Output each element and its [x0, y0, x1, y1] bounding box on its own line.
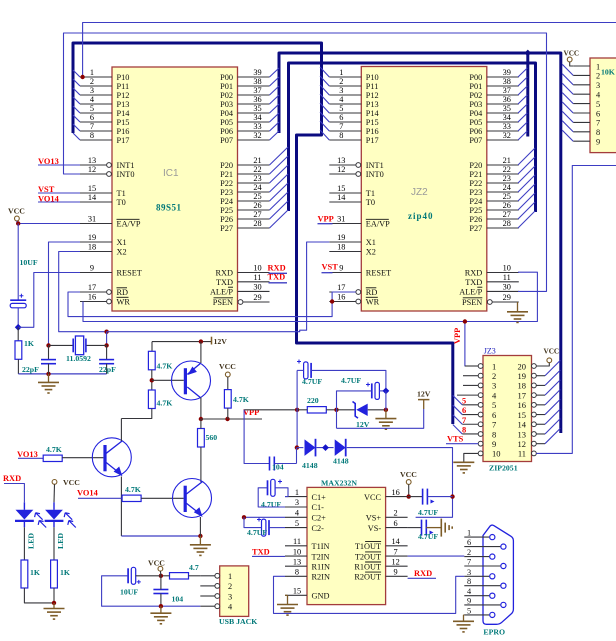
svg-text:EA/VP: EA/VP: [366, 220, 390, 229]
svg-text:P23: P23: [469, 188, 482, 197]
svg-text:INT0: INT0: [117, 170, 135, 179]
svg-text:31: 31: [88, 215, 96, 224]
svg-text:7: 7: [90, 122, 94, 131]
pin 27 (P26) right: [238, 218, 270, 220]
svg-text:VO13: VO13: [17, 450, 38, 459]
DB9 pin 5: [464, 614, 489, 616]
svg-text:26: 26: [253, 201, 261, 210]
JZ3 pin 13: [532, 432, 537, 437]
svg-text:5: 5: [339, 104, 343, 113]
RP1 pin 2: [573, 74, 590, 76]
svg-text:P12: P12: [117, 91, 130, 100]
RP1 pin 4: [573, 93, 590, 95]
JZ2 P0x bus entries: [518, 68, 527, 77]
svg-text:560: 560: [206, 433, 218, 442]
svg-text:6: 6: [596, 109, 600, 118]
svg-text:31: 31: [337, 215, 345, 224]
svg-text:P22: P22: [220, 179, 233, 188]
svg-text:2: 2: [492, 371, 496, 381]
svg-text:24: 24: [503, 183, 512, 192]
JZ3 pin 14: [532, 422, 537, 427]
svg-text:13: 13: [518, 429, 527, 439]
svg-text:14: 14: [88, 193, 97, 202]
svg-text:T0: T0: [366, 198, 375, 207]
svg-text:RESET: RESET: [117, 269, 142, 278]
wire VPP node: [201, 418, 262, 420]
svg-text:27: 27: [503, 210, 511, 219]
svg-text:VCC: VCC: [148, 559, 165, 568]
svg-text:11: 11: [293, 537, 301, 546]
svg-text:15: 15: [337, 184, 345, 193]
svg-text:23: 23: [253, 174, 261, 183]
svg-text:22pF: 22pF: [99, 365, 116, 374]
svg-text:16: 16: [391, 488, 399, 497]
svg-text:10UF: 10UF: [20, 258, 38, 267]
pin 16 (WR) left: [356, 299, 361, 304]
svg-text:34: 34: [503, 113, 512, 122]
svg-text:3: 3: [295, 498, 299, 507]
JZ3 bus entry pin 13: [536, 433, 545, 435]
DB9 pin 2: [464, 556, 489, 558]
svg-text:4148: 4148: [302, 461, 318, 470]
connector EPRO DB9 outline: [483, 525, 513, 624]
diode D3 4148: [297, 447, 304, 449]
svg-text:4.7K: 4.7K: [157, 362, 173, 371]
svg-text:X1: X1: [117, 238, 127, 247]
pin 34 (P05) right: [238, 121, 270, 123]
svg-text:1K: 1K: [60, 568, 70, 577]
svg-text:P13: P13: [366, 100, 379, 109]
wire Q2 emitter: [199, 517, 201, 536]
svg-text:10K: 10K: [601, 68, 615, 77]
capacitor 4.7UF c1: [304, 362, 308, 379]
pin 27 (P26) right: [487, 218, 519, 220]
pin 26 (P25) right: [487, 209, 519, 211]
pin 10 (RXD) right: [238, 272, 270, 274]
bus B1 horizontal y=43 (P1x bus): [73, 43, 453, 424]
svg-text:27: 27: [253, 210, 261, 219]
svg-text:TXD: TXD: [465, 278, 482, 287]
svg-text:10: 10: [503, 264, 511, 273]
svg-text:5: 5: [596, 100, 600, 109]
ground G9 db9 pin5: [463, 614, 466, 616]
usb left loop wire: [102, 576, 201, 606]
LED D2: [53, 502, 55, 510]
LED D1: [23, 502, 25, 510]
connector JZ3 ZIP2051 body: [483, 356, 532, 462]
pin 12 (INT0) left: [356, 172, 361, 177]
pin 29 (PSEN) right: [238, 300, 243, 305]
pin 13 (R1IN) left: [285, 565, 307, 567]
svg-text:T2IN: T2IN: [312, 552, 330, 561]
svg-text:4.7K: 4.7K: [46, 445, 62, 454]
svg-text:T1: T1: [366, 189, 375, 198]
pin 26 (P25) right: [238, 209, 270, 211]
svg-text:VTS: VTS: [447, 435, 464, 444]
svg-text:18: 18: [88, 243, 96, 252]
capacitor 4.7UF c6 VS-: [408, 527, 422, 529]
wire X1 to crystal: [49, 242, 81, 345]
svg-text:8: 8: [492, 429, 496, 439]
svg-text:10UF: 10UF: [120, 588, 138, 597]
svg-text:16: 16: [518, 400, 527, 410]
pin 39 (P00) right: [238, 76, 270, 78]
svg-text:3: 3: [467, 568, 471, 577]
svg-text:P24: P24: [469, 197, 483, 206]
svg-text:4148: 4148: [333, 457, 349, 466]
ground G7: [53, 603, 55, 609]
svg-text:P06: P06: [220, 127, 233, 136]
pin 4 (P13) left: [329, 103, 361, 105]
wire Q3 emitter to 12V: [200, 342, 202, 363]
pin 5 (P14) left: [329, 112, 361, 114]
svg-text:6: 6: [492, 410, 496, 420]
svg-text:12: 12: [518, 439, 527, 449]
USB pin 1: [215, 573, 220, 578]
svg-text:EPRO: EPRO: [483, 628, 505, 637]
capacitor 10UF usb: [127, 568, 129, 583]
svg-text:P17: P17: [366, 136, 379, 145]
pin 10 (RXD) right: [487, 272, 519, 274]
pin 31 (EA/VP) left: [329, 223, 361, 225]
JZ3 pin 15: [532, 412, 537, 417]
svg-text:1: 1: [339, 68, 343, 77]
svg-text:17: 17: [337, 283, 345, 292]
IC1 P1x bus entries: [73, 70, 80, 77]
svg-text:P03: P03: [469, 100, 482, 109]
pin 12 (INT0) left: [107, 172, 112, 177]
svg-text:VCC: VCC: [63, 478, 80, 487]
svg-text:14: 14: [337, 193, 346, 202]
JZ3 pin 20: [532, 364, 537, 369]
svg-text:8: 8: [467, 577, 471, 586]
svg-text:9: 9: [596, 138, 600, 147]
power VCC JZ3: [547, 358, 552, 363]
svg-text:4.7UF: 4.7UF: [418, 532, 438, 541]
svg-text:4.7K: 4.7K: [233, 395, 249, 404]
svg-text:RXD: RXD: [3, 474, 21, 483]
pin 2 (VS+) right: [386, 516, 408, 518]
svg-text:3: 3: [339, 86, 343, 95]
DB9 pin 4: [464, 595, 489, 597]
svg-text:38: 38: [503, 77, 511, 86]
power VCC usb: [158, 566, 163, 571]
svg-text:LED: LED: [27, 533, 36, 549]
pin 32 (P07) right: [487, 139, 519, 141]
svg-text:P16: P16: [366, 127, 379, 136]
svg-text:P05: P05: [220, 118, 233, 127]
pin 7 (P16) left: [329, 130, 361, 132]
svg-text:13: 13: [293, 557, 301, 566]
svg-text:R1OUT: R1OUT: [354, 562, 381, 571]
power VCC left: [15, 216, 20, 221]
power 12V bar: [211, 337, 213, 345]
pin 22 (P21) right: [238, 173, 270, 175]
svg-text:T2OUT: T2OUT: [355, 552, 381, 561]
resistor R_a 4.7K: [148, 351, 155, 370]
svg-text:ZIP2051: ZIP2051: [489, 464, 518, 473]
JZ3 pin 9: [478, 441, 483, 446]
JZ3 bus entry pin 5: [453, 395, 463, 405]
svg-text:5: 5: [462, 396, 466, 405]
svg-text:USB JACK: USB JACK: [219, 617, 257, 626]
svg-text:P01: P01: [220, 82, 233, 91]
IC MAX232N body: [307, 487, 386, 604]
RP1 pin 9: [573, 140, 590, 142]
svg-text:9: 9: [467, 596, 471, 605]
svg-text:12V: 12V: [214, 337, 228, 346]
svg-text:C2-: C2-: [312, 524, 325, 533]
wire RD net IC1-JZ2: [68, 292, 356, 317]
wire Q1 collector: [120, 419, 122, 442]
wire cap to diamond node: [17, 308, 19, 328]
IC1 P2x bus entries: [270, 147, 289, 165]
svg-text:JZ3: JZ3: [484, 347, 496, 356]
ground G4: [453, 461, 474, 463]
wire JZ2 X1 to crystal: [107, 242, 330, 332]
wire 12V to zener rail: [337, 409, 424, 428]
svg-text:3: 3: [228, 592, 232, 601]
DB9 pin 8: [464, 585, 500, 587]
connector USB JACK body: [220, 566, 249, 617]
svg-text:P07: P07: [469, 136, 482, 145]
svg-text:X1: X1: [366, 238, 376, 247]
pin 22 (P21) right: [487, 173, 519, 175]
svg-text:T0: T0: [117, 198, 126, 207]
svg-text:1: 1: [467, 529, 471, 538]
pin 1 (P10) left: [80, 76, 112, 78]
svg-text:P21: P21: [220, 170, 233, 179]
svg-text:WR: WR: [117, 298, 131, 307]
svg-text:5: 5: [467, 606, 471, 615]
RP1 pin 3: [573, 84, 590, 86]
svg-text:7: 7: [467, 558, 471, 567]
svg-text:X2: X2: [117, 248, 127, 257]
pin 17 (RD) left: [356, 290, 361, 295]
svg-text:22: 22: [253, 165, 261, 174]
svg-text:C1+: C1+: [312, 493, 327, 502]
pin 7 (T2OUT) right: [386, 555, 408, 557]
pin 4 (P13) left: [80, 103, 112, 105]
wire emitters to ground: [121, 535, 200, 537]
svg-text:MAX232N: MAX232N: [321, 479, 357, 488]
svg-text:19: 19: [88, 233, 96, 242]
JZ3 pin 10: [478, 451, 483, 456]
svg-text:WR: WR: [366, 298, 380, 307]
pin 13 (INT1) left: [356, 163, 361, 168]
pin 16 (VCC) right: [386, 496, 408, 498]
DB9 pin 7: [464, 565, 500, 567]
svg-text:7: 7: [462, 416, 466, 425]
svg-text:P04: P04: [469, 109, 483, 118]
svg-text:11: 11: [518, 449, 526, 459]
svg-text:VPP: VPP: [453, 328, 462, 344]
svg-text:10: 10: [492, 449, 501, 459]
svg-text:10: 10: [293, 547, 301, 556]
svg-text:6: 6: [394, 519, 398, 528]
capacitor 4.7UF c3: [267, 480, 269, 495]
pin 28 (P27) right: [487, 227, 519, 229]
pin 7 (P16) left: [80, 130, 112, 132]
JZ3 bus entry pin 14: [536, 423, 545, 425]
svg-text:R1IN: R1IN: [312, 562, 330, 571]
svg-text:4.7UF: 4.7UF: [247, 528, 267, 537]
svg-text:GND: GND: [312, 592, 330, 601]
power VCC at RP1 pin1: [567, 57, 572, 62]
wire R2IN to DB9 pin3: [274, 576, 465, 613]
svg-text:37: 37: [503, 86, 511, 95]
svg-text:5: 5: [492, 400, 496, 410]
svg-text:P00: P00: [220, 73, 233, 82]
svg-text:P27: P27: [469, 224, 482, 233]
JZ3 pin 6: [478, 412, 483, 417]
wire rail to Ra: [151, 342, 153, 352]
pin 9 (RESET) left: [329, 272, 361, 274]
svg-text:24: 24: [253, 183, 262, 192]
zener diode 12V: [337, 409, 357, 411]
svg-text:1: 1: [90, 68, 94, 77]
JZ3 bus entry pin 8: [453, 424, 463, 434]
svg-text:P27: P27: [220, 224, 233, 233]
DB9 pin 9: [464, 604, 500, 606]
svg-text:6: 6: [467, 538, 471, 547]
svg-text:4.7K: 4.7K: [157, 399, 173, 408]
svg-text:9: 9: [339, 264, 343, 273]
JZ2 P1x bus entries: [320, 67, 329, 77]
JZ3 bus entry pin 19: [536, 375, 545, 377]
svg-text:VCC: VCC: [364, 493, 382, 502]
JZ2 P2x bus entries: [518, 148, 535, 165]
crystal Y1 11.0592: [46, 343, 50, 347]
pin 21 (P20) right: [487, 164, 519, 166]
power VCC max232: [406, 480, 411, 485]
bus B2 branch JZ2 P0x: [526, 53, 529, 137]
svg-text:P25: P25: [469, 206, 482, 215]
resistor 560: [198, 429, 205, 448]
JZ3 bus entry pin 16: [536, 404, 545, 406]
power VCC at R pullup: [225, 372, 230, 377]
svg-text:P22: P22: [469, 179, 482, 188]
svg-text:C2+: C2+: [312, 514, 327, 523]
svg-text:3: 3: [90, 86, 94, 95]
svg-text:P25: P25: [220, 206, 233, 215]
wire RESET net: [18, 273, 80, 328]
pin 6 (P15) left: [329, 121, 361, 123]
pin 31 (EA/VP) left: [80, 223, 112, 225]
pin 21 (P20) right: [238, 164, 270, 166]
resistor 220: [307, 407, 326, 413]
pin 23 (P22) right: [238, 182, 270, 184]
svg-text:JZ2: JZ2: [411, 187, 428, 198]
svg-text:9: 9: [492, 439, 496, 449]
pin 36 (P03) right: [487, 103, 519, 105]
12V rail top: [152, 341, 212, 343]
svg-text:P11: P11: [366, 82, 379, 91]
svg-text:35: 35: [503, 104, 511, 113]
svg-text:2: 2: [90, 77, 94, 86]
pin 18 (X2) left: [80, 251, 112, 253]
svg-text:14: 14: [391, 537, 400, 546]
svg-text:ALE/P: ALE/P: [210, 288, 233, 297]
pin 29 (PSEN) right: [487, 300, 492, 305]
pin 15 (T1) left: [80, 192, 112, 194]
pin 8 (P17) left: [80, 139, 112, 141]
svg-text:P10: P10: [117, 73, 130, 82]
JZ3 pin 12: [532, 441, 537, 446]
svg-text:P03: P03: [220, 100, 233, 109]
svg-text:32: 32: [253, 131, 261, 140]
svg-text:19: 19: [518, 371, 527, 381]
wire 220 rail: [244, 409, 296, 411]
svg-text:VPP: VPP: [318, 215, 334, 224]
svg-text:RESET: RESET: [366, 269, 391, 278]
svg-text:VO14: VO14: [77, 489, 99, 498]
svg-text:P15: P15: [366, 118, 379, 127]
JZ3 pin11 wire: [536, 166, 616, 454]
svg-text:38: 38: [253, 77, 261, 86]
svg-text:15: 15: [293, 587, 301, 596]
wire Q1 emitter down: [120, 477, 122, 537]
svg-text:3: 3: [596, 81, 600, 90]
8051 MCU IC1 body: [112, 67, 238, 311]
wire C2+ net: [244, 516, 285, 518]
pin 11 (TXD) right: [487, 281, 519, 283]
svg-text:28: 28: [253, 219, 261, 228]
svg-text:8: 8: [462, 425, 466, 434]
svg-text:IC1: IC1: [163, 168, 179, 179]
pin 28 (P27) right: [238, 227, 270, 229]
pin 32 (P07) right: [238, 139, 270, 141]
svg-text:P01: P01: [469, 82, 482, 91]
pin 36 (P03) right: [238, 103, 270, 105]
pin 24 (P23) right: [238, 191, 270, 193]
svg-text:P26: P26: [469, 215, 482, 224]
svg-text:34: 34: [253, 113, 262, 122]
svg-text:4.7UF: 4.7UF: [341, 376, 361, 385]
svg-text:12: 12: [391, 557, 399, 566]
resistor network RP1 10K body: [590, 58, 616, 153]
wire net A: IC1 pin1 to right edge: [83, 23, 616, 78]
transistor Q2 NPN: [173, 479, 212, 518]
svg-text:4.7K: 4.7K: [125, 485, 141, 494]
svg-text:2: 2: [228, 582, 232, 591]
capacitor 22pF left: [48, 345, 50, 359]
svg-text:TXD: TXD: [268, 273, 286, 282]
capacitor 4.7UF c4: [262, 519, 266, 536]
svg-text:5: 5: [90, 104, 94, 113]
wire diodes to VS+: [347, 448, 453, 518]
diode D4 4148: [335, 439, 346, 456]
svg-text:RXD: RXD: [215, 269, 233, 278]
pin 16 (WR) left: [107, 299, 112, 304]
svg-text:15: 15: [518, 410, 527, 420]
svg-text:7: 7: [596, 119, 600, 128]
JZ3 bus entry pin 15: [536, 414, 545, 416]
RP1 pin 1: [573, 65, 590, 67]
resistor 1K (reset): [17, 327, 19, 341]
svg-text:16: 16: [88, 293, 96, 302]
svg-text:12: 12: [88, 165, 96, 174]
svg-text:X2: X2: [366, 248, 376, 257]
ground G6: [160, 606, 162, 613]
bus B2 y=53 (P0x bus): [279, 53, 561, 433]
svg-text:10: 10: [253, 264, 261, 273]
svg-text:39: 39: [503, 68, 511, 77]
pin 14 (T0) left: [329, 201, 361, 203]
svg-text:P26: P26: [220, 215, 233, 224]
svg-text:33: 33: [503, 122, 511, 131]
JZ3 bus entry pin 18: [536, 384, 545, 386]
